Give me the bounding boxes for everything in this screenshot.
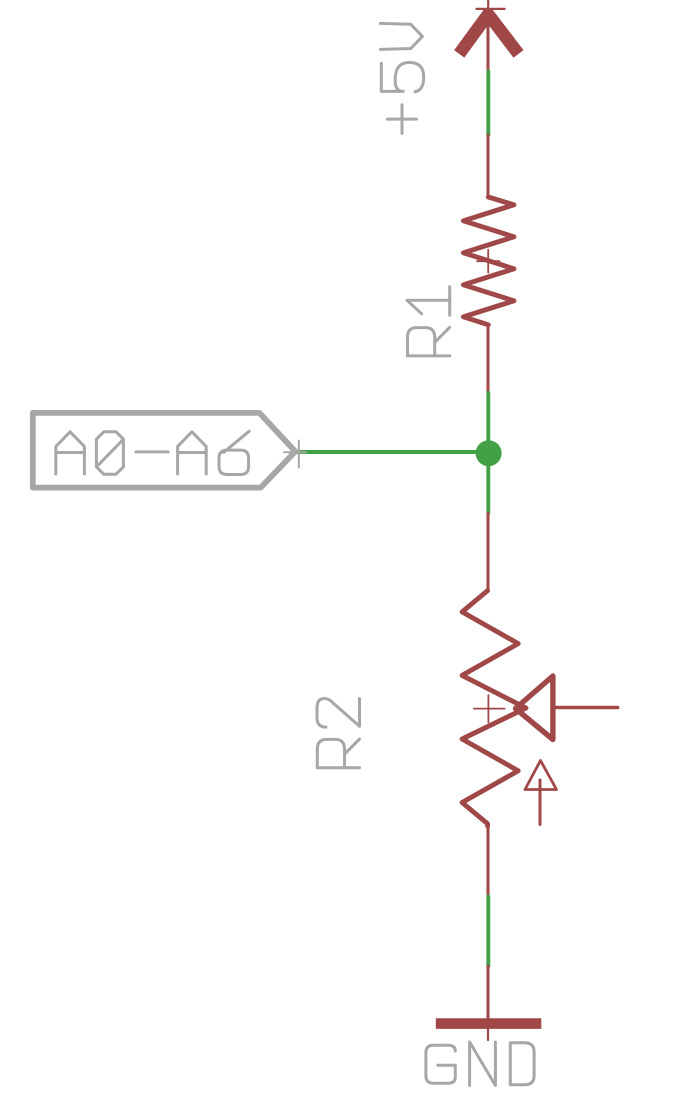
- R2 trimmer arrow shaft: [539, 780, 542, 825]
- GND pin wire: [486, 966, 489, 1019]
- +5V label text (rotated): [381, 23, 424, 133]
- net label flag A0-A6 outline: [33, 413, 296, 488]
- ground symbol bar: [436, 1018, 542, 1029]
- R2 wiper triangle: [516, 676, 553, 740]
- net wire (green) label to junction: [297, 450, 489, 454]
- resistor R1 pin (bottom): [486, 325, 489, 393]
- R1 label text (rotated): [407, 287, 450, 356]
- label origin cross: [284, 441, 306, 468]
- +5V pin wire: [486, 9, 489, 72]
- R2 label text (rotated): [317, 699, 360, 768]
- R2 origin cross: [474, 695, 505, 723]
- resistor R1 zigzag: [463, 197, 514, 325]
- net wire (green) junction to R2: [486, 465, 490, 513]
- net wire (green) R2 to GND: [486, 897, 490, 967]
- potentiometer R2 pin (bottom): [486, 825, 489, 896]
- +5V supply symbol origin cross: [477, 1, 505, 18]
- label text A0-A6: [56, 431, 249, 474]
- net wire (green) +5V to R1: [486, 72, 490, 136]
- resistor R1 pin (top): [486, 135, 489, 198]
- R2 wiper wire: [554, 706, 618, 710]
- R2 trimmer arrow head: [525, 761, 557, 790]
- +5V supply arrow chevron: [459, 14, 518, 54]
- GND label text: [426, 1042, 534, 1086]
- junction dot node A0-A6: [476, 440, 502, 466]
- ground origin cross: [487, 1019, 489, 1040]
- net wire (green) R1 to junction: [486, 393, 490, 441]
- R1 origin cross: [477, 250, 500, 273]
- potentiometer R2 pin (top): [486, 513, 489, 591]
- potentiometer R2 zigzag: [462, 591, 526, 826]
